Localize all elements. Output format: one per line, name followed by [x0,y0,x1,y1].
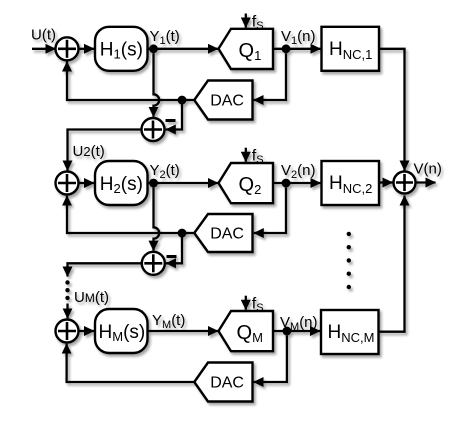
node Y1 junction dot [149,44,158,53]
wire VM feedback to DACM [254,335,287,382]
wire H1 to Q1 [148,48,219,50]
wire DAC2 node to summer S2 feedback [67,196,182,233]
wire DAC1 output to node [182,99,194,101]
wire DS2 output left and down (start of UM path) [68,263,142,276]
wire SM to HM [79,330,95,332]
wire QM to HNCM [273,330,320,332]
wire V1 feedback to DAC1 [254,53,286,100]
vertical ellipsis dots between HNC2 and HNCM [347,232,351,289]
DAC D2 [194,214,252,252]
wire Q1 to HNC1 [273,48,321,50]
svg-text:V1(n): V1(n) [281,28,315,47]
svg-text:V(n): V(n) [414,161,442,178]
block HNC,2 [322,161,380,205]
fs clock arrow into QM [245,296,247,310]
svg-text:fS: fS [252,296,264,315]
node DAC2 junction dot [178,229,187,238]
wire Y2 down to diff summer DS2 (with hop) [154,187,160,250]
diff summer DS1 [142,118,165,141]
wire HNC1 to output summer (right bus down) [379,49,405,171]
wire Q2 to HNC2 [273,182,321,184]
quantizer QM [219,311,274,351]
quantizer Q1 [219,29,274,69]
svg-text:V2(n): V2(n) [281,162,315,181]
svg-text:H1(s): H1(s) [100,40,143,62]
svg-text:Y2(t): Y2(t) [150,162,180,181]
minus sign at diff summer DS2 [167,255,177,258]
svg-text:Y1(t): Y1(t) [150,28,180,47]
wire S1 to H1 [79,48,95,50]
wire DACM output to summer SM feedback [67,344,195,382]
summer S1 [56,37,79,60]
block HNC,M [321,310,379,354]
wire DAC2 output to node [182,232,194,234]
diff summer DS2 [142,252,165,275]
wire V2 feedback to DAC2 [254,187,286,233]
block HNC,1 [322,27,380,71]
wire DAC1 node down to diff summer D1 right input [166,100,182,130]
fs clock arrow into Q1 [245,14,247,28]
node V2 junction dot [282,179,291,188]
quantizer Q2 [219,163,274,203]
svg-text:VM(n): VM(n) [280,314,318,333]
wire U(t) input arrow into summer S1 [32,48,56,50]
node DAC1 junction dot [178,96,187,105]
svg-text:UM(t): UM(t) [74,289,109,306]
block H2(s) [95,161,148,205]
minus sign at diff summer DS1 [166,119,176,122]
wire DAC2 node down to diff summer DS2 right input [166,233,182,263]
svg-text:H2(s): H2(s) [100,174,143,196]
svg-text:fS: fS [252,13,264,32]
summer S2 [56,172,79,195]
node VM junction dot [283,327,292,336]
block H1(s) [95,27,148,71]
output summer SO [394,172,416,194]
wire HNCM to output summer (up the right bus) [379,196,405,332]
DAC D1 [194,81,252,120]
wire S2 to H2 [79,182,95,184]
svg-text:U(t): U(t) [31,27,56,44]
wire V(n) output arrow [416,181,436,183]
svg-text:fS: fS [252,148,264,167]
svg-text:DAC: DAC [210,375,244,392]
wire DAC1 node to summer S1 feedback [67,62,182,101]
summer SM [56,320,79,343]
svg-text:YM(t): YM(t) [152,312,185,331]
wire UM arrow into summer SM [66,304,68,319]
ellipsis dots on UM path [65,280,69,300]
svg-text:DAC: DAC [210,93,244,110]
node V1 junction dot [282,44,291,53]
svg-text:U2(t): U2(t) [73,143,105,160]
fs clock arrow into Q2 [245,148,247,162]
wire DS1 output to summer S2 (U2 path) [68,130,142,171]
wire Y1 down to diff summer (with hop over feedback) [154,53,160,117]
wire HNC2 to output summer [379,181,393,183]
wire HM to QM [148,330,219,332]
DAC DM [194,363,252,402]
svg-text:DAC: DAC [210,226,244,243]
block HM(s) [95,309,148,353]
node Y2 junction dot [149,179,158,188]
wire H2 to Q2 [148,182,219,184]
